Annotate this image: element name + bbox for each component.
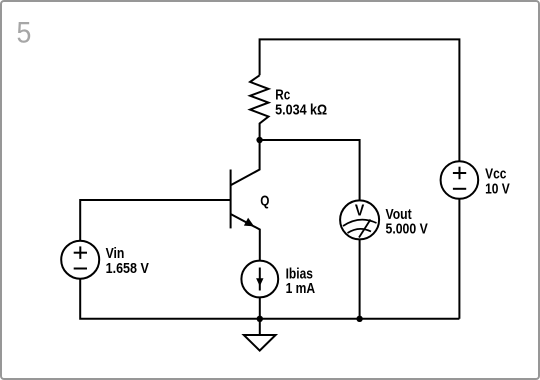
svg-text:10 V: 10 V <box>485 180 510 197</box>
svg-text:V: V <box>355 202 364 220</box>
svg-text:1.658 V: 1.658 V <box>106 259 150 276</box>
svg-text:5.000 V: 5.000 V <box>386 220 429 236</box>
svg-text:1 mA: 1 mA <box>286 280 316 297</box>
svg-text:5.034 kΩ: 5.034 kΩ <box>275 101 327 118</box>
svg-text:5: 5 <box>17 16 32 50</box>
svg-text:Q: Q <box>260 192 269 209</box>
